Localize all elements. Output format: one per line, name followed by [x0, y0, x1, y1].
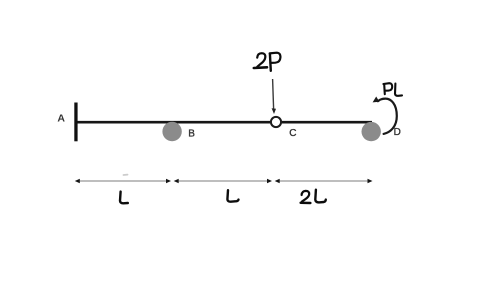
svg-text:D: D: [394, 127, 401, 138]
svg-text:C: C: [289, 128, 296, 139]
svg-text:B: B: [188, 129, 195, 140]
svg-text:A: A: [57, 113, 65, 125]
